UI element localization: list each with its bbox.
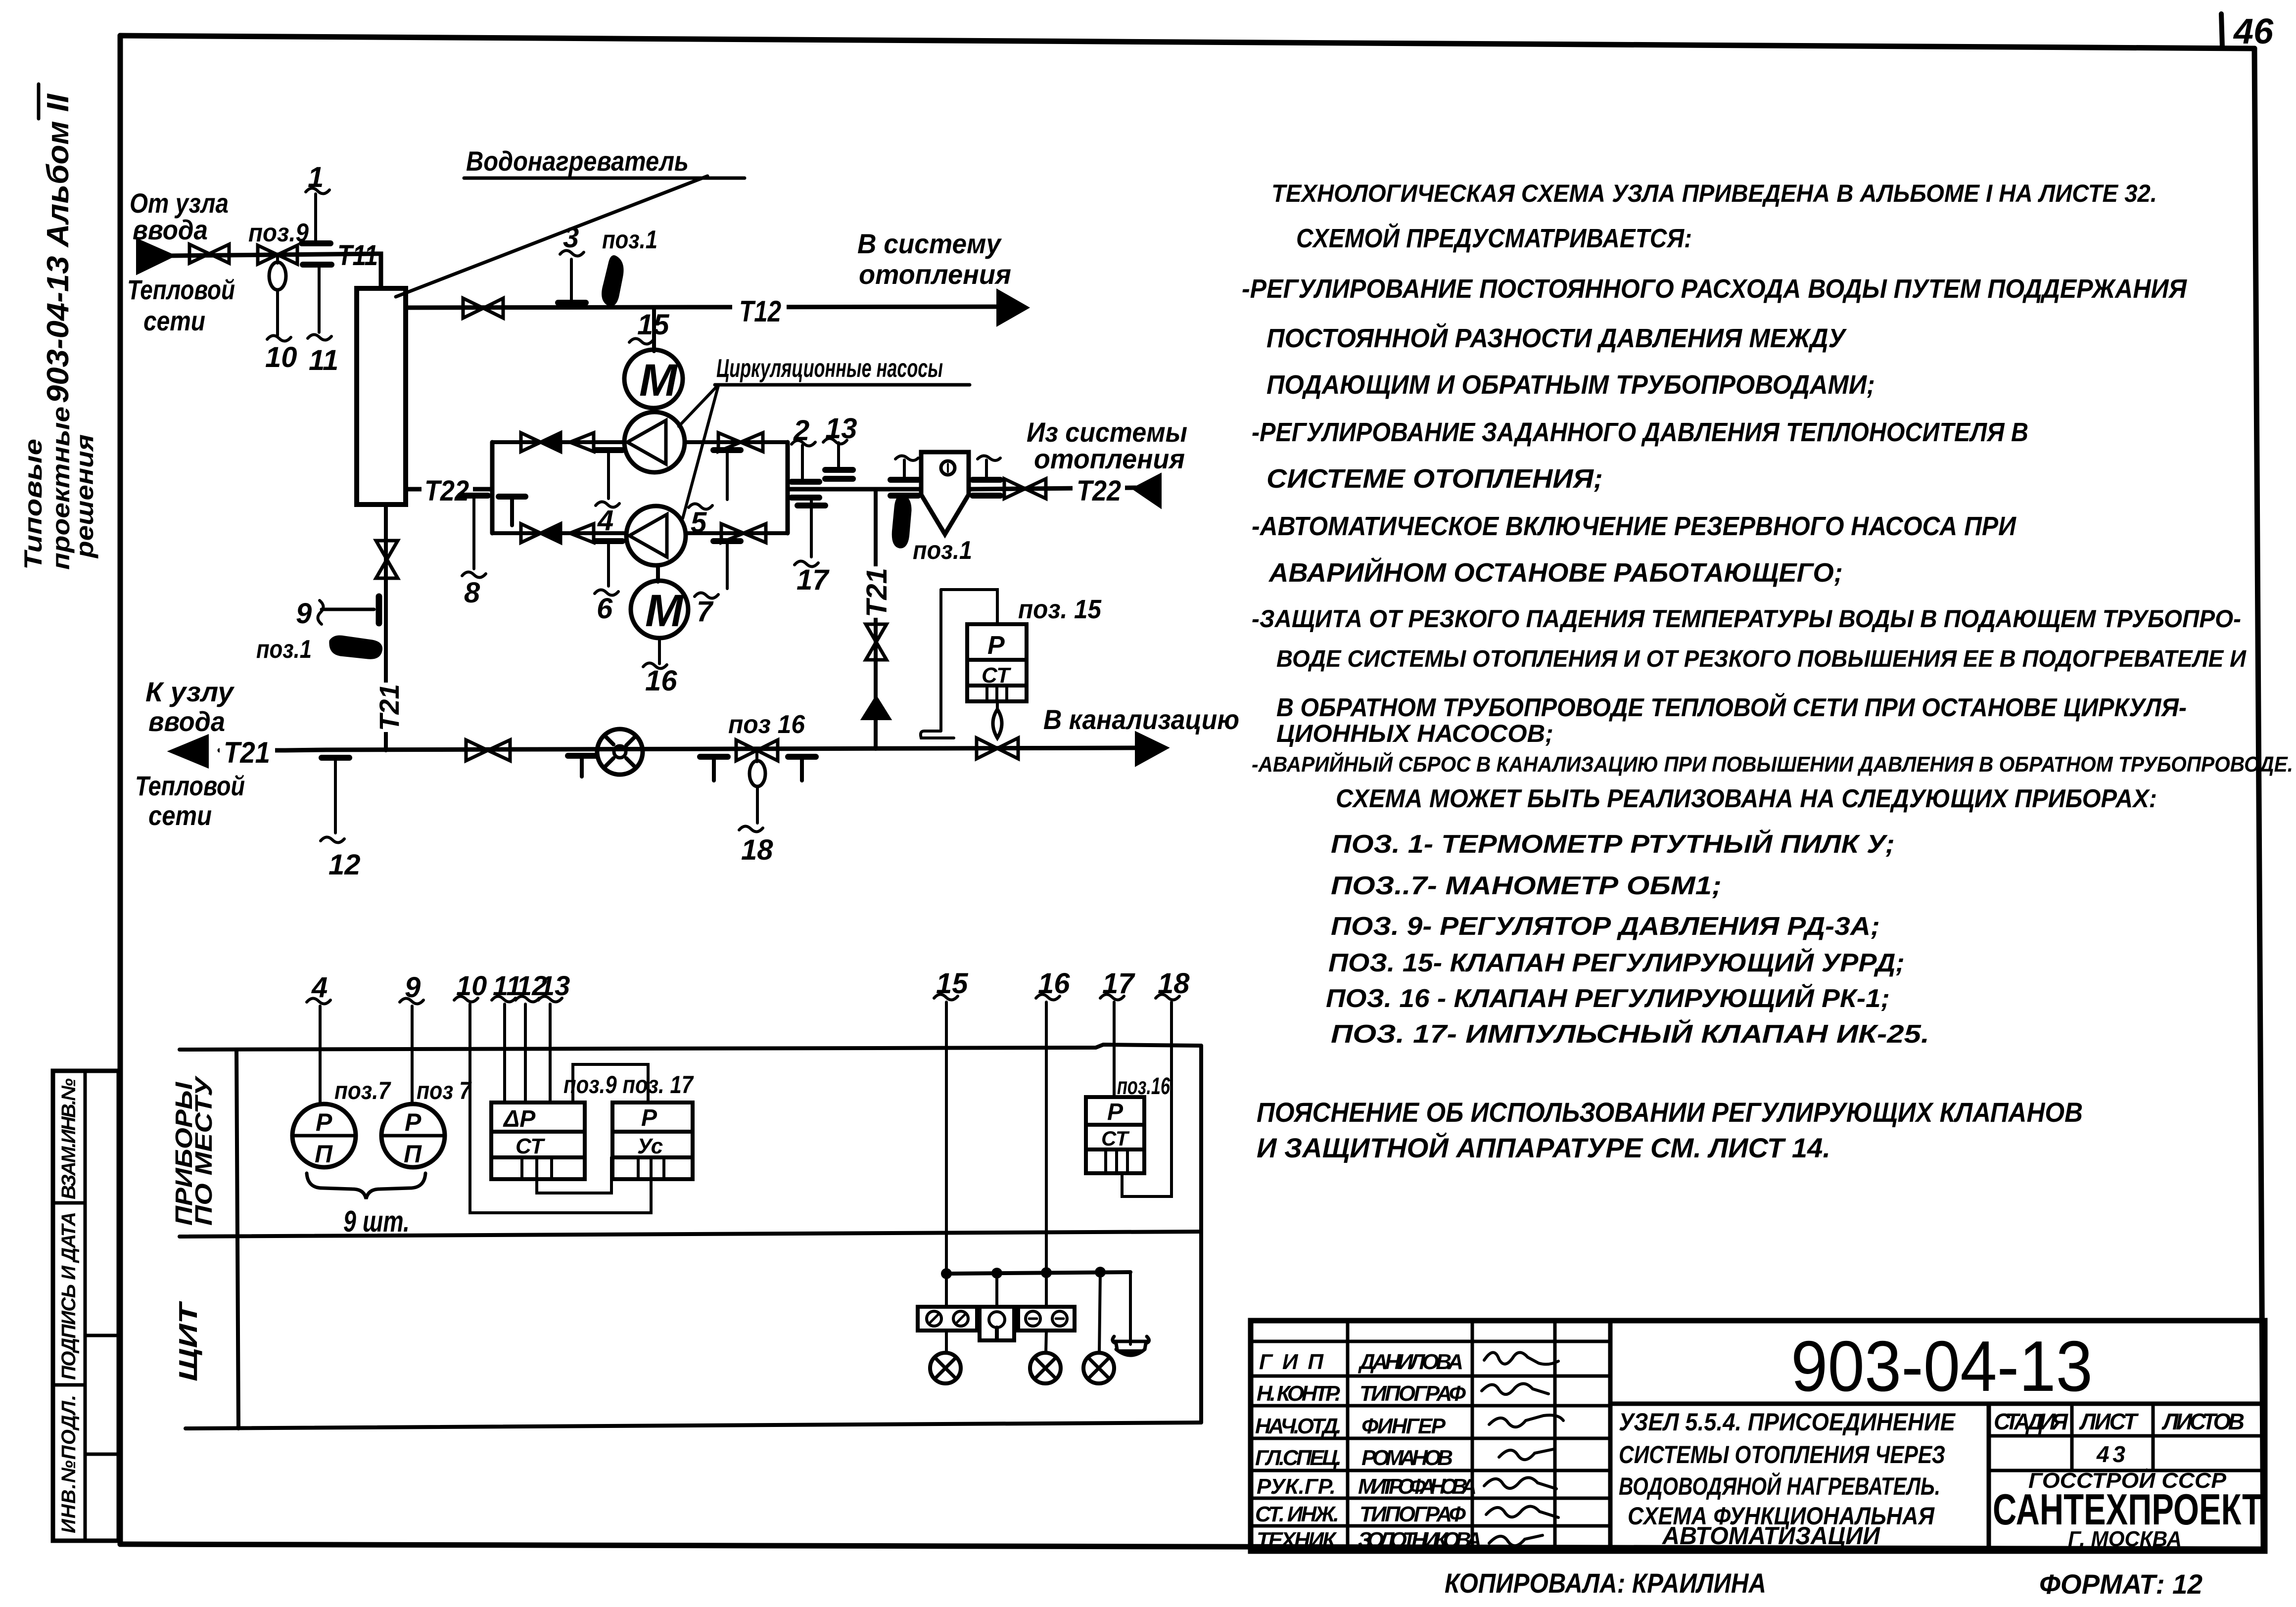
svg-text:ЦИОННЫХ НАСОСОВ;: ЦИОННЫХ НАСОСОВ; bbox=[1276, 720, 1553, 747]
svg-text:ПОЗ. 9- РЕГУЛЯТОР ДАВЛЕНИЯ РД: ПОЗ. 9- РЕГУЛЯТОР ДАВЛЕНИЯ РД-3А; bbox=[1331, 912, 1880, 941]
label 9 шт. bbox=[343, 1205, 410, 1238]
label поз 7 (second) bbox=[417, 1077, 472, 1104]
svg-text:В систему: В систему bbox=[857, 228, 1002, 259]
wire T22 heater to manifold bbox=[406, 487, 492, 492]
svg-text:УЗЕЛ 5.5.4. ПРИСОЕДИНЕНИЕ: УЗЕЛ 5.5.4. ПРИСОЕДИНЕНИЕ bbox=[1619, 1408, 1956, 1436]
svg-text:-РЕГУЛИРОВАНИЕ ПОСТОЯННОГО РАС: -РЕГУЛИРОВАНИЕ ПОСТОЯННОГО РАСХОДА ВОДЫ … bbox=[1242, 274, 2188, 304]
label Тепловой сети (top) bbox=[127, 274, 235, 336]
label 15 (on riser) bbox=[629, 309, 669, 344]
label 4 bbox=[596, 502, 619, 537]
number 11 with stem bbox=[492, 970, 521, 1002]
key switch block bbox=[980, 1273, 1014, 1340]
svg-text:ЛИСТОВ: ЛИСТОВ bbox=[2161, 1409, 2245, 1434]
band label column divider bbox=[236, 1050, 238, 1428]
svg-text:ПОСТОЯННОЙ РАЗНОСТИ ДАВЛЕНИЯ М: ПОСТОЯННОЙ РАЗНОСТИ ДАВЛЕНИЯ МЕЖДУ bbox=[1266, 322, 1847, 353]
label Водонагреватель bbox=[466, 145, 689, 177]
svg-text:ВЗАМ.ИНВ.№: ВЗАМ.ИНВ.№ bbox=[58, 1078, 80, 1199]
left margin rotated heading: 903-04-13 Альбом II bbox=[39, 84, 75, 403]
wire T11 pipe bbox=[172, 254, 380, 256]
svg-text:ввода: ввода bbox=[133, 214, 208, 245]
thermometer blob on T12 bbox=[603, 257, 622, 305]
svg-text:поз.9 поз. 17: поз.9 поз. 17 bbox=[563, 1071, 694, 1099]
svg-text:Т12: Т12 bbox=[739, 295, 781, 328]
svg-text:РУК.ГР.: РУК.ГР. bbox=[1257, 1474, 1336, 1499]
svg-text:ФОРМАТ: 12: ФОРМАТ: 12 bbox=[2039, 1568, 2202, 1600]
svg-text:поз.1: поз.1 bbox=[256, 635, 312, 664]
svg-text:ФИНГЕР: ФИНГЕР bbox=[1361, 1414, 1446, 1438]
regulator valve поз.9 on T11 bbox=[258, 245, 297, 290]
svg-text:17: 17 bbox=[797, 564, 830, 596]
svg-text:ПОДАЮЩИМ И ОБРАТНЫМ ТРУБОПРОВО: ПОДАЮЩИМ И ОБРАТНЫМ ТРУБОПРОВОДАМИ; bbox=[1266, 370, 1875, 400]
flange pair 2 bbox=[792, 482, 819, 498]
pump P2 bbox=[626, 506, 686, 565]
valve upper-left bbox=[521, 433, 541, 452]
svg-text:Ус: Ус bbox=[637, 1134, 663, 1158]
signatures (squiggles) bbox=[1482, 1352, 1563, 1546]
check triangle upper bbox=[570, 433, 594, 452]
svg-text:903-04-13 Альбом II: 903-04-13 Альбом II bbox=[41, 93, 75, 403]
svg-text:Т11: Т11 bbox=[337, 239, 378, 272]
regulating valve поз.15 on pipe bbox=[977, 738, 1018, 759]
svg-text:15: 15 bbox=[637, 309, 669, 341]
wire stem to 10 bbox=[276, 290, 279, 335]
svg-text:ТЕХНОЛОГИЧЕСКАЯ СХЕМА УЗЛА ПРИ: ТЕХНОЛОГИЧЕСКАЯ СХЕМА УЗЛА ПРИВЕДЕНА В А… bbox=[1271, 180, 2157, 207]
labels поз.9 поз.17 bbox=[563, 1071, 694, 1099]
svg-text:Водонагреватель: Водонагреватель bbox=[466, 145, 689, 177]
valve on T12 bbox=[463, 298, 503, 318]
svg-text:ГИП: ГИП bbox=[1259, 1350, 1324, 1374]
svg-text:М: М bbox=[639, 355, 678, 406]
bottom-left stamp boxes bbox=[53, 1071, 119, 1541]
svg-text:7: 7 bbox=[697, 596, 714, 628]
bus junction dots bbox=[941, 1267, 1106, 1279]
svg-text:К узлу: К узлу bbox=[145, 676, 235, 707]
svg-text:6: 6 bbox=[597, 593, 613, 625]
instrument box поз.16 (Р/СТ) bbox=[1086, 1097, 1144, 1173]
wire stem to 11 bbox=[318, 266, 321, 332]
svg-text:поз.7: поз.7 bbox=[334, 1077, 391, 1104]
svg-text:ПОЗ. 17- ИМПУЛЬСНЫЙ КЛАПАН ИК: ПОЗ. 17- ИМПУЛЬСНЫЙ КЛАПАН ИК-25. bbox=[1331, 1019, 1929, 1049]
svg-text:11: 11 bbox=[309, 344, 338, 376]
svg-text:-РЕГУЛИРОВАНИЕ ЗАДАННОГО ДАВЛЕ: -РЕГУЛИРОВАНИЕ ЗАДАННОГО ДАВЛЕНИЯ ТЕПЛОН… bbox=[1252, 417, 2028, 447]
heater vessel (водонагреватель) bbox=[357, 288, 406, 505]
left manifold bbox=[490, 442, 495, 533]
svg-text:решения: решения bbox=[71, 434, 98, 559]
label 13 bbox=[823, 413, 857, 445]
flange pair 13 bbox=[825, 470, 853, 479]
svg-text:-АВТОМАТИЧЕСКОЕ ВКЛЮЧЕНИЕ РЕЗЕ: -АВТОМАТИЧЕСКОЕ ВКЛЮЧЕНИЕ РЕЗЕРВНОГО НАС… bbox=[1252, 511, 2016, 541]
gauge circle 2 (Р/П) bbox=[381, 1104, 445, 1168]
svg-text:АВАРИЙНОМ ОСТАНОВЕ РАБОТАЮЩЕГО: АВАРИЙНОМ ОСТАНОВЕ РАБОТАЮЩЕГО; bbox=[1268, 557, 1843, 588]
tee 8 stem bbox=[460, 496, 488, 569]
svg-text:Циркуляционные насосы: Циркуляционные насосы bbox=[716, 354, 943, 383]
motor M1 bbox=[624, 350, 683, 408]
svg-text:СИСТЕМЫ ОТОПЛЕНИЯ ЧЕРЕЗ: СИСТЕМЫ ОТОПЛЕНИЯ ЧЕРЕЗ bbox=[1619, 1441, 1945, 1469]
wire trap to T22 arrow bbox=[969, 488, 1136, 489]
svg-text:Тепловой: Тепловой bbox=[127, 274, 235, 305]
thermometer blob below left flange bbox=[893, 497, 910, 547]
svg-text:ПОЗ. 16 - КЛАПАН РЕГУЛИРУЮЩИЙ: ПОЗ. 16 - КЛАПАН РЕГУЛИРУЮЩИЙ РК-1; bbox=[1326, 983, 1890, 1013]
svg-text:В ОБРАТНОМ ТРУБОПРОВОДЕ ТЕПЛО: В ОБРАТНОМ ТРУБОПРОВОДЕ ТЕПЛОВОЙ СЕТИ ПР… bbox=[1276, 692, 2187, 722]
arrow joins bottom pipe bbox=[864, 698, 889, 718]
svg-text:Т22: Т22 bbox=[424, 475, 469, 507]
svg-text:СТ: СТ bbox=[1101, 1127, 1130, 1150]
tee 4 bbox=[595, 450, 622, 499]
band bottom line bbox=[186, 1423, 1201, 1428]
label поз.16 (band) bbox=[1117, 1073, 1170, 1100]
arrow T21 out (left) bbox=[172, 737, 207, 766]
svg-text:9 шт.: 9 шт. bbox=[343, 1205, 410, 1238]
valve on T11 bbox=[189, 244, 229, 263]
svg-text:ИНВ.№ПОДЛ.: ИНВ.№ПОДЛ. bbox=[58, 1395, 80, 1533]
label Т22 (right) bbox=[1073, 474, 1125, 507]
gauge circle 1 (Р/П) bbox=[292, 1104, 356, 1168]
svg-text:903-04-13: 903-04-13 bbox=[1791, 1326, 2093, 1406]
label Т22 (left) bbox=[422, 474, 473, 507]
label Из системы отопления bbox=[1027, 416, 1187, 474]
svg-text:ПОЯСНЕНИЕ ОБ ИСПОЛЬЗОВАНИИ Р: ПОЯСНЕНИЕ ОБ ИСПОЛЬЗОВАНИИ РЕГУЛИРУЮЩИХ … bbox=[1257, 1097, 2083, 1128]
drain symbol bbox=[1113, 1272, 1149, 1355]
svg-text:П: П bbox=[315, 1140, 333, 1168]
tee near flow meter bbox=[568, 756, 596, 777]
wire return header bbox=[788, 487, 921, 492]
tee right of valve 16 bbox=[788, 757, 816, 781]
footer Формат bbox=[2039, 1568, 2202, 1600]
label От узла ввода bbox=[130, 187, 229, 245]
arrow T12 out bbox=[998, 292, 1026, 323]
instrument stem 1 bbox=[314, 194, 317, 242]
panel bus bbox=[946, 1272, 1130, 1274]
svg-text:ПО МЕСТУ: ПО МЕСТУ bbox=[191, 1075, 217, 1226]
svg-text:ДАНИЛОВА: ДАНИЛОВА bbox=[1358, 1350, 1463, 1374]
title block job number 903-04-13 bbox=[1791, 1326, 2093, 1406]
instrument box ΔР/СТ bbox=[491, 1102, 585, 1179]
number 9 with stem bbox=[400, 971, 423, 1004]
label Циркуляционные насосы bbox=[716, 354, 943, 383]
wire heater drain bbox=[384, 505, 388, 750]
valve upper-right bbox=[718, 433, 763, 452]
label В систему отопления bbox=[857, 228, 1011, 290]
svg-text:АВТОМАТИЗАЦИИ: АВТОМАТИЗАЦИИ bbox=[1661, 1522, 1880, 1550]
label поз.9 bbox=[248, 219, 309, 247]
label 9 (drain) bbox=[296, 597, 324, 630]
link below boxes bbox=[537, 1157, 611, 1193]
title block stage/sheet header bbox=[1994, 1409, 2245, 1467]
label Тепловой сети (bottom) bbox=[135, 770, 245, 831]
pump P1 bbox=[624, 412, 685, 472]
label поз.15 bbox=[1018, 595, 1102, 624]
terminal block 3 bbox=[1018, 1273, 1075, 1331]
svg-text:НАЧ.ОТД.: НАЧ.ОТД. bbox=[1255, 1414, 1342, 1438]
svg-text:отопления: отопления bbox=[1034, 443, 1185, 474]
svg-text:Р: Р bbox=[316, 1108, 332, 1136]
impulse line foot bbox=[921, 590, 954, 738]
valve after trap bbox=[1004, 479, 1046, 499]
label 1 bbox=[306, 161, 329, 194]
valve on heater drain (vertical) bbox=[376, 541, 398, 578]
check triangle lower bbox=[570, 524, 594, 543]
svg-text:СХЕМА МОЖЕТ БЫТЬ РЕАЛИЗОВАНА Н: СХЕМА МОЖЕТ БЫТЬ РЕАЛИЗОВАНА НА СЛЕДУЮЩИ… bbox=[1336, 784, 2157, 813]
title block frame bbox=[1251, 1321, 2265, 1551]
instrument stem 3 bbox=[558, 259, 586, 304]
number 15 with stem bbox=[934, 967, 968, 1000]
title block roles column bbox=[1255, 1350, 1342, 1552]
svg-text:-АВАРИЙНЫЙ СБРОС В КАНАЛИЗАЦИЮ: -АВАРИЙНЫЙ СБРОС В КАНАЛИЗАЦИЮ ПРИ ПОВЫШ… bbox=[1252, 751, 2293, 777]
wire bottom pipe bbox=[220, 748, 1138, 750]
svg-text:Р: Р bbox=[641, 1105, 657, 1131]
instrument stem 2 bbox=[801, 445, 804, 481]
svg-text:Р: Р bbox=[1107, 1099, 1124, 1125]
svg-text:М: М bbox=[645, 586, 684, 636]
svg-text:И ЗАЩИТНОЙ АППАРАТУРЕ СМ. ЛИС: И ЗАЩИТНОЙ АППАРАТУРЕ СМ. ЛИСТ 14. bbox=[1257, 1132, 1830, 1163]
label 10 bbox=[265, 335, 297, 373]
title block org bbox=[1993, 1468, 2262, 1551]
tee 12 bbox=[322, 758, 349, 833]
leader lines to pumps bbox=[679, 385, 718, 426]
brace 9 шт bbox=[307, 1173, 425, 1199]
label К узлу ввода bbox=[145, 676, 235, 737]
valve lower-left bbox=[521, 524, 541, 543]
stamp rotated labels bbox=[58, 1078, 80, 1533]
svg-text:В канализацию: В канализацию bbox=[1043, 704, 1239, 735]
upper branch wire bbox=[492, 440, 624, 444]
label 7 bbox=[695, 593, 718, 628]
wire stem to 16 bbox=[658, 638, 661, 664]
svg-text:Т21: Т21 bbox=[374, 684, 405, 731]
lamp 2 bbox=[1030, 1331, 1061, 1383]
svg-text:отопления: отопления bbox=[859, 259, 1011, 290]
tee 6 bbox=[595, 541, 622, 586]
dirt trap поз.1 bbox=[921, 452, 969, 534]
label Приборы по месту (rotated) bbox=[171, 1075, 217, 1226]
wire T21 drop bbox=[874, 489, 878, 701]
lamp 1 bbox=[930, 1331, 961, 1383]
title block names column bbox=[1358, 1350, 1482, 1552]
svg-text:Р: Р bbox=[405, 1108, 422, 1136]
svg-text:12: 12 bbox=[328, 849, 361, 881]
svg-text:Н. КОНТР.: Н. КОНТР. bbox=[1257, 1381, 1341, 1406]
svg-text:3: 3 bbox=[563, 222, 579, 254]
label Т21 on drain (rotated) bbox=[374, 683, 405, 732]
thermometer blob (drain) bbox=[330, 637, 381, 658]
lower branch wire left bbox=[492, 531, 626, 535]
svg-text:-ЗАЩИТА ОТ РЕЗКОГО ПАДЕНИЯ ТЕМ: -ЗАЩИТА ОТ РЕЗКОГО ПАДЕНИЯ ТЕМПЕРАТУРЫ В… bbox=[1252, 605, 2241, 633]
svg-text:ТИПОГРАФ: ТИПОГРАФ bbox=[1359, 1381, 1466, 1406]
svg-text:ПОЗ..7- МАНОМЕТР ОБМ1;: ПОЗ..7- МАНОМЕТР ОБМ1; bbox=[1331, 872, 1722, 900]
svg-text:сети: сети bbox=[148, 800, 212, 831]
svg-text:ввода: ввода bbox=[148, 706, 225, 737]
svg-text:СТ: СТ bbox=[982, 663, 1011, 688]
label 18 bbox=[739, 826, 773, 866]
label 12 bbox=[321, 837, 361, 881]
svg-text:ВОДЕ СИСТЕМЫ ОТОПЛЕНИЯ И ОТ РЕ: ВОДЕ СИСТЕМЫ ОТОПЛЕНИЯ И ОТ РЕЗКОГО ПОВЫ… bbox=[1276, 646, 2247, 672]
flange left of trap bbox=[890, 456, 918, 496]
label 16 bbox=[643, 663, 677, 697]
label В канализацию bbox=[1043, 704, 1239, 735]
arrow from system (left-pointing) bbox=[1135, 476, 1160, 505]
label 6 bbox=[595, 590, 618, 625]
label Т21 bbox=[220, 736, 275, 769]
svg-text:поз 16: поз 16 bbox=[728, 710, 805, 739]
svg-text:46: 46 bbox=[2233, 12, 2274, 51]
label 5 bbox=[689, 504, 712, 539]
label T11 bbox=[337, 239, 378, 272]
number 12 with stem bbox=[515, 970, 547, 1002]
regulating valve поз.16 (actuator below) bbox=[736, 740, 778, 786]
motor M2 bbox=[631, 565, 688, 638]
flange right of trap bbox=[973, 456, 1000, 496]
wire T12 bbox=[406, 307, 1001, 308]
wire pump riser to T12 bbox=[652, 308, 656, 351]
svg-text:поз 7: поз 7 bbox=[417, 1077, 472, 1104]
flow element (circle with cross) bbox=[597, 729, 643, 775]
footer Копировала bbox=[1445, 1567, 1766, 1599]
svg-text:ЛИСТ: ЛИСТ bbox=[2079, 1409, 2139, 1434]
label 17 bbox=[795, 561, 830, 596]
svg-text:СХЕМОЙ ПРЕДУСМАТРИВАЕТСЯ:: СХЕМОЙ ПРЕДУСМАТРИВАЕТСЯ: bbox=[1296, 223, 1692, 253]
wire T11 into heater bbox=[375, 254, 381, 288]
svg-text:10: 10 bbox=[265, 341, 297, 373]
label Щит (rotated) bbox=[174, 1300, 203, 1381]
svg-text:Г. МОСКВА: Г. МОСКВА bbox=[2068, 1527, 2182, 1551]
actuator drop of поз.15 valve bbox=[993, 701, 1002, 738]
band divider line bbox=[180, 1232, 1201, 1237]
svg-text:КОПИРОВАЛА: КРАИЛИНА: КОПИРОВАЛА: КРАИЛИНА bbox=[1445, 1567, 1766, 1599]
label Т12 bbox=[732, 293, 787, 328]
wire stem to 18 bbox=[756, 786, 759, 823]
instrument box поз.15 (Р/СТ) bbox=[967, 624, 1027, 701]
svg-text:Т21: Т21 bbox=[861, 568, 893, 617]
svg-text:РОМАНОВ: РОМАНОВ bbox=[1361, 1446, 1453, 1470]
svg-text:Типовые: Типовые bbox=[19, 439, 47, 570]
right manifold bbox=[786, 442, 790, 533]
number 13 with stem bbox=[538, 970, 570, 1002]
svg-text:ΔР: ΔР bbox=[503, 1106, 536, 1132]
band top line bbox=[180, 1045, 1201, 1050]
short tee on T22 bbox=[499, 497, 525, 525]
number 17 with stem bbox=[1100, 967, 1135, 1000]
title block subject text bbox=[1619, 1408, 1956, 1550]
svg-text:8: 8 bbox=[464, 577, 480, 609]
number 18 with stem bbox=[1156, 967, 1190, 1000]
terminal block 1 bbox=[918, 1274, 977, 1331]
number 10 with stem bbox=[454, 970, 487, 1002]
svg-text:Тепловой: Тепловой bbox=[135, 770, 245, 801]
label 8 bbox=[462, 572, 486, 609]
svg-text:ЩИТ: ЩИТ bbox=[174, 1300, 203, 1381]
svg-text:18: 18 bbox=[741, 834, 773, 866]
svg-text:СТ: СТ bbox=[515, 1134, 545, 1158]
arrow to sewer (right) bbox=[1137, 734, 1166, 764]
thermometer pocket 1 on T11 (flange bars) bbox=[302, 243, 331, 265]
instrument box Р/Ус bbox=[612, 1102, 693, 1179]
label поз 16 bbox=[728, 710, 805, 739]
svg-text:9: 9 bbox=[296, 597, 312, 630]
svg-text:П: П bbox=[404, 1140, 422, 1168]
label поз.1 (top) bbox=[602, 226, 657, 254]
impulse line to поз.15 box bbox=[941, 590, 997, 624]
svg-text:поз.1: поз.1 bbox=[602, 226, 657, 254]
instrument stem 13 bbox=[837, 443, 840, 469]
svg-text:Т21: Т21 bbox=[224, 736, 270, 769]
svg-text:Т22: Т22 bbox=[1077, 475, 1121, 507]
number 16 with stem bbox=[1036, 967, 1070, 1000]
label 2 bbox=[792, 414, 815, 447]
svg-text:ТЕХНИК: ТЕХНИК bbox=[1257, 1528, 1337, 1552]
leader line to heater label bbox=[396, 176, 707, 297]
svg-text:сети: сети bbox=[143, 305, 205, 336]
svg-text:СТАДИЯ: СТАДИЯ bbox=[1994, 1409, 2068, 1434]
label поз.1 (drain) bbox=[256, 635, 312, 664]
tee 9 on drain bbox=[322, 597, 379, 623]
svg-text:ЗОЛОТНИКОВА: ЗОЛОТНИКОВА bbox=[1358, 1528, 1482, 1552]
svg-text:Р: Р bbox=[987, 631, 1005, 660]
upper branch right wire bbox=[685, 440, 788, 444]
arrow inlet T11 bbox=[138, 241, 172, 272]
label поз.1 (trap) bbox=[913, 536, 972, 565]
stem 17 below header bbox=[797, 498, 825, 557]
svg-text:поз.1: поз.1 bbox=[913, 536, 972, 565]
label поз.7 (first) bbox=[334, 1077, 391, 1104]
label 11 bbox=[308, 334, 338, 376]
valve on bottom pipe bbox=[466, 740, 510, 761]
lower branch right wire bbox=[686, 531, 788, 535]
svg-text:ГЛ.СПЕЦ.: ГЛ.СПЕЦ. bbox=[1255, 1446, 1342, 1470]
band right edge bbox=[1199, 1046, 1203, 1423]
left margin rotated heading: Типовые проектные решения bbox=[19, 407, 98, 570]
svg-text:СИСТЕМЕ ОТОПЛЕНИЯ;: СИСТЕМЕ ОТОПЛЕНИЯ; bbox=[1266, 464, 1603, 494]
svg-text:ВОДОВОДЯНОЙ НАГРЕВАТЕЛЬ.: ВОДОВОДЯНОЙ НАГРЕВАТЕЛЬ. bbox=[1619, 1472, 1940, 1500]
number 4 with stem bbox=[307, 971, 330, 1004]
svg-text:ПОДПИСЬ И ДАТА: ПОДПИСЬ И ДАТА bbox=[58, 1212, 80, 1380]
valve lower-right bbox=[721, 524, 766, 543]
lamp 3 bbox=[1083, 1272, 1114, 1383]
tee 7 bbox=[713, 541, 741, 589]
svg-text:ТИПОГРАФ: ТИПОГРАФ bbox=[1359, 1502, 1466, 1526]
impulse link between boxes (top) bbox=[573, 1064, 648, 1102]
label 3 bbox=[560, 222, 584, 256]
page number 46 bbox=[2221, 12, 2274, 51]
svg-text:ПОЗ. 15- КЛАПАН РЕГУЛИРУЮЩИЙ: ПОЗ. 15- КЛАПАН РЕГУЛИРУЮЩИЙ УРРД; bbox=[1328, 948, 1905, 977]
valve on drop (vertical) bbox=[866, 624, 887, 660]
label Т21 (vertical) bbox=[861, 566, 893, 618]
svg-text:СТ. ИНЖ.: СТ. ИНЖ. bbox=[1255, 1502, 1339, 1526]
svg-text:поз. 15: поз. 15 bbox=[1018, 595, 1102, 624]
tee 5 bbox=[713, 450, 741, 500]
tee left of valve 16 bbox=[700, 757, 728, 781]
svg-text:ПОЗ. 1- ТЕРМОМЕТР РТУТНЫЙ ПИЛ: ПОЗ. 1- ТЕРМОМЕТР РТУТНЫЙ ПИЛК У; bbox=[1331, 829, 1895, 859]
svg-text:МИТРОФАНОВА: МИТРОФАНОВА bbox=[1358, 1474, 1477, 1499]
